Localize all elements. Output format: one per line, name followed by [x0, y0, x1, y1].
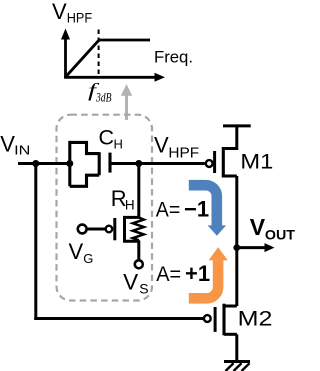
- svg-text:S: S: [139, 280, 148, 296]
- svg-text:V: V: [69, 239, 84, 264]
- svg-text:H: H: [114, 137, 123, 152]
- blue arrow A=-1: [189, 185, 226, 236]
- label V_G: [69, 239, 94, 266]
- graph label V_HPF: [52, 0, 92, 25]
- terminal V_G open circle: [78, 225, 87, 234]
- svg-text:IN: IN: [14, 143, 30, 158]
- label C_H: [99, 126, 123, 152]
- wire supply to M1 source: [235, 126, 238, 150]
- svg-text:A=: A=: [156, 197, 181, 221]
- svg-text:3dB: 3dB: [95, 91, 112, 105]
- svg-text:V: V: [52, 0, 67, 24]
- wire V_IN input: [18, 162, 70, 165]
- transistor R_H gate bubble: [106, 226, 113, 233]
- wire M2 drain to output node: [235, 248, 238, 306]
- supply rail bar (top): [223, 124, 251, 127]
- wire V_G gate: [87, 228, 105, 231]
- svg-text:V: V: [154, 133, 169, 158]
- svg-text:V: V: [250, 214, 266, 240]
- graph label f_3dB: [88, 81, 112, 105]
- svg-text:−1: −1: [184, 196, 209, 221]
- orange arrow A=+1: [189, 247, 228, 298]
- graph x-axis: [64, 73, 165, 82]
- graph response curve: [66, 40, 151, 77]
- label A= +1: [156, 261, 210, 286]
- wire M2 source to ground: [235, 334, 238, 361]
- svg-text:A=: A=: [156, 262, 181, 286]
- node output junction dot: [233, 244, 240, 251]
- dashed box: [57, 115, 153, 301]
- wire V_OUT arrow: [237, 243, 275, 252]
- label V_S: [123, 270, 149, 297]
- svg-text:+1: +1: [185, 261, 210, 286]
- svg-text:HPF: HPF: [67, 10, 92, 25]
- MOS capacitor C_H: [70, 141, 110, 186]
- gray arrow: [121, 84, 132, 120]
- label R_H: [111, 186, 135, 213]
- node junction dot at C_H left: [66, 160, 73, 167]
- node V_HPF junction dot: [135, 160, 142, 167]
- graph y-axis: [61, 29, 70, 79]
- svg-text:C: C: [99, 126, 115, 150]
- svg-text:M1: M1: [240, 150, 273, 174]
- transistor M2: [204, 304, 237, 336]
- wire R_H bottom vertical: [137, 240, 140, 259]
- terminal V_S open circle: [135, 260, 143, 268]
- svg-text:OUT: OUT: [265, 227, 296, 243]
- label A= -1: [156, 196, 209, 221]
- wire C_H gate to M1 gate: [110, 162, 205, 165]
- svg-text:V: V: [123, 270, 138, 295]
- node junction dot at V_IN: [32, 160, 39, 167]
- transistor R_H bracket (source/drain): [125, 217, 139, 241]
- svg-text:H: H: [125, 198, 135, 213]
- wire bottom to M2 gate: [34, 317, 203, 320]
- svg-text:Freq.: Freq.: [154, 48, 193, 67]
- svg-text:V: V: [0, 132, 15, 157]
- svg-text:G: G: [83, 251, 93, 266]
- label V_HPF node: [154, 133, 199, 162]
- graph f3dB dashed line: [98, 30, 100, 78]
- label V_IN: [0, 132, 30, 158]
- svg-text:HPF: HPF: [168, 146, 199, 162]
- svg-text:M2: M2: [238, 307, 273, 331]
- resistor R_H zigzag: [133, 218, 144, 241]
- ground: [224, 362, 250, 371]
- transistor M1: [206, 147, 237, 178]
- wire M1 drain to output node: [235, 176, 238, 248]
- wire R_H top vertical: [137, 164, 140, 219]
- wire V_IN vertical: [34, 164, 37, 321]
- transistor R_H gate bar: [113, 218, 116, 240]
- label V_OUT: [250, 214, 296, 242]
